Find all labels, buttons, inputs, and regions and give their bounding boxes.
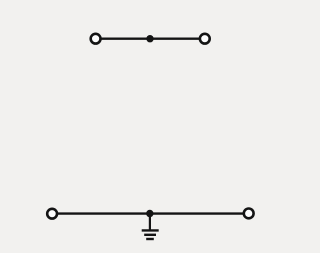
terminal circle: lower-left <box>47 209 57 219</box>
terminal circle: upper-right <box>200 34 210 44</box>
ground symbol <box>142 230 159 239</box>
wire: lower rail <box>52 212 249 214</box>
terminal circle: upper-left <box>91 34 101 44</box>
terminal circle: lower-right <box>244 209 254 219</box>
junction dot: upper rail node <box>146 35 153 42</box>
junction dot: lower rail node <box>146 210 153 217</box>
wire: upper rail <box>96 38 205 40</box>
wire: ground stub <box>149 214 151 230</box>
